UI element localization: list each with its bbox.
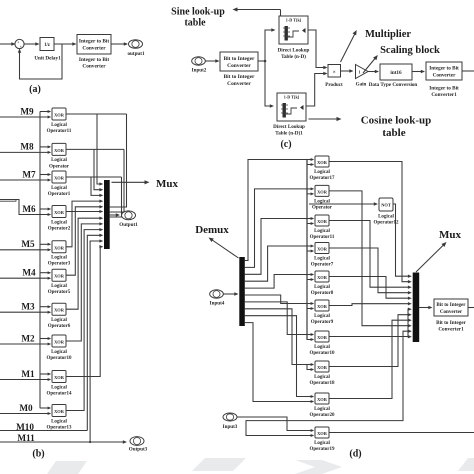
svg-text:Operator: Operator bbox=[49, 164, 70, 169]
svg-text:M11: M11 bbox=[17, 433, 35, 443]
svg-text:Operator9: Operator9 bbox=[311, 320, 334, 325]
svg-text:M2: M2 bbox=[21, 333, 35, 343]
svg-text:Mux: Mux bbox=[156, 178, 179, 190]
svg-text:XOR: XOR bbox=[54, 274, 65, 279]
svg-text:Logical: Logical bbox=[314, 257, 330, 262]
svg-text:Converter: Converter bbox=[440, 309, 463, 315]
svg-text:XOR: XOR bbox=[317, 304, 328, 309]
svg-text:XOR: XOR bbox=[54, 176, 65, 181]
svg-text:XOR: XOR bbox=[54, 113, 65, 118]
svg-text:Sine look-up: Sine look-up bbox=[171, 7, 225, 18]
svg-text:Operator5: Operator5 bbox=[48, 290, 71, 295]
svg-text:XOR: XOR bbox=[54, 340, 65, 345]
svg-text:Logical: Logical bbox=[314, 285, 330, 290]
svg-text:Converter1: Converter1 bbox=[438, 327, 464, 333]
svg-text:XOR: XOR bbox=[54, 308, 65, 313]
svg-text:1/z: 1/z bbox=[44, 43, 51, 48]
svg-text:Bit to Integer: Bit to Integer bbox=[224, 74, 255, 80]
svg-text:Logical: Logical bbox=[51, 385, 67, 390]
svg-text:Table (n-D): Table (n-D) bbox=[281, 53, 306, 60]
svg-text:Logical: Logical bbox=[51, 256, 67, 261]
svg-text:Operator17: Operator17 bbox=[310, 176, 335, 181]
svg-text:Integer to Bit: Integer to Bit bbox=[79, 57, 109, 63]
svg-text:Table (n-D)1: Table (n-D)1 bbox=[275, 130, 303, 137]
svg-text:Cosine look-up: Cosine look-up bbox=[361, 115, 432, 127]
svg-text:Logical: Logical bbox=[314, 407, 330, 412]
svg-text:NOT: NOT bbox=[381, 203, 391, 208]
svg-text:Direct Lookup: Direct Lookup bbox=[278, 47, 310, 53]
svg-text:M0: M0 bbox=[19, 403, 33, 413]
svg-text:Operator3: Operator3 bbox=[48, 262, 71, 267]
svg-text:Converter: Converter bbox=[82, 46, 106, 52]
svg-text:XOR: XOR bbox=[54, 210, 65, 215]
svg-text:1: 1 bbox=[358, 70, 360, 75]
svg-text:Operator8: Operator8 bbox=[311, 291, 334, 296]
svg-text:Operator10: Operator10 bbox=[47, 356, 72, 361]
svg-text:M4: M4 bbox=[22, 268, 36, 278]
svg-text:Integer to Bit: Integer to Bit bbox=[429, 86, 459, 92]
svg-text:XOR: XOR bbox=[54, 148, 65, 153]
svg-text:Direct Lookup: Direct Lookup bbox=[273, 124, 305, 130]
svg-text:XOR: XOR bbox=[317, 275, 328, 280]
svg-text:Logical: Logical bbox=[51, 419, 67, 424]
svg-text:XOR: XOR bbox=[317, 431, 328, 436]
svg-text:Converter: Converter bbox=[227, 63, 251, 69]
svg-text:XOR: XOR bbox=[317, 335, 328, 340]
svg-text:int16: int16 bbox=[390, 70, 402, 76]
svg-text:Logical: Logical bbox=[314, 375, 330, 380]
svg-text:Bit to Integer: Bit to Integer bbox=[436, 320, 466, 326]
svg-text:Integer to Bit: Integer to Bit bbox=[79, 39, 109, 45]
svg-text:Logical: Logical bbox=[51, 123, 67, 128]
svg-text:Operator1: Operator1 bbox=[48, 192, 71, 197]
svg-text:M1: M1 bbox=[21, 369, 35, 379]
svg-text:M8: M8 bbox=[20, 142, 34, 152]
svg-text:(c): (c) bbox=[280, 139, 291, 150]
svg-text:M6: M6 bbox=[22, 204, 36, 214]
svg-text:Demux: Demux bbox=[195, 224, 229, 236]
svg-text:Operator20: Operator20 bbox=[310, 413, 335, 418]
svg-text:XOR: XOR bbox=[317, 160, 328, 165]
svg-text:M5: M5 bbox=[21, 239, 35, 249]
svg-text:Converter: Converter bbox=[227, 81, 251, 87]
svg-text:Operator: Operator bbox=[312, 206, 333, 211]
svg-text:Logical: Logical bbox=[51, 318, 67, 323]
svg-text:Unit Delay1: Unit Delay1 bbox=[34, 56, 61, 62]
svg-text:(a): (a) bbox=[29, 84, 41, 95]
svg-text:Logical: Logical bbox=[314, 345, 330, 350]
svg-text:Bit to Integer: Bit to Integer bbox=[436, 302, 466, 308]
svg-text:Mux: Mux bbox=[439, 229, 462, 241]
svg-text:XOR: XOR bbox=[317, 247, 328, 252]
svg-text:Input3: Input3 bbox=[223, 424, 238, 430]
svg-text:Operator7: Operator7 bbox=[311, 263, 334, 268]
svg-text:1-D T[k]: 1-D T[k] bbox=[286, 18, 302, 23]
svg-text:(b): (b) bbox=[32, 449, 44, 460]
svg-text:table: table bbox=[382, 127, 405, 139]
svg-text:M10: M10 bbox=[16, 422, 34, 432]
svg-text:Logical: Logical bbox=[314, 229, 330, 234]
svg-text:Data Type Conversion: Data Type Conversion bbox=[369, 82, 418, 88]
svg-text:Operator19: Operator19 bbox=[310, 447, 335, 452]
svg-text:Product: Product bbox=[325, 82, 343, 88]
svg-text:Operator2: Operator2 bbox=[48, 226, 71, 231]
svg-text:Converter: Converter bbox=[433, 73, 456, 79]
svg-text:Logical: Logical bbox=[51, 350, 67, 355]
svg-text:table: table bbox=[184, 18, 206, 29]
svg-text:Logical: Logical bbox=[314, 441, 330, 446]
svg-text:Operator18: Operator18 bbox=[310, 381, 335, 386]
svg-text:Logical: Logical bbox=[51, 284, 67, 289]
svg-text:Bit to Integer: Bit to Integer bbox=[224, 56, 255, 62]
svg-text:Logical: Logical bbox=[51, 220, 67, 225]
svg-text:M7: M7 bbox=[22, 169, 36, 179]
svg-text:1-D T[k]: 1-D T[k] bbox=[284, 95, 300, 100]
svg-text:Operator13: Operator13 bbox=[47, 425, 72, 430]
svg-text:Operator10: Operator10 bbox=[310, 351, 335, 356]
svg-text:XOR: XOR bbox=[317, 397, 328, 402]
svg-text:Logical: Logical bbox=[378, 215, 394, 220]
svg-text:Gain: Gain bbox=[356, 82, 367, 88]
svg-text:Logical: Logical bbox=[51, 158, 67, 163]
svg-text:Operator6: Operator6 bbox=[48, 324, 71, 329]
svg-text:XOR: XOR bbox=[317, 189, 328, 194]
svg-text:Output3: Output3 bbox=[129, 447, 148, 453]
svg-text:(d): (d) bbox=[349, 449, 361, 460]
svg-text:Converter: Converter bbox=[82, 64, 106, 70]
svg-text:Multiplier: Multiplier bbox=[365, 29, 411, 40]
svg-text:Input4: Input4 bbox=[210, 301, 225, 307]
svg-text:Operator11: Operator11 bbox=[47, 129, 72, 134]
svg-text:+: + bbox=[20, 45, 22, 49]
svg-text:M9: M9 bbox=[20, 106, 34, 116]
svg-text:Scaling block: Scaling block bbox=[380, 45, 440, 56]
svg-text:output1: output1 bbox=[128, 51, 145, 57]
svg-text:XOR: XOR bbox=[54, 245, 65, 250]
svg-text:Converter1: Converter1 bbox=[431, 92, 457, 98]
svg-text:XOR: XOR bbox=[54, 409, 65, 414]
svg-text:Logical: Logical bbox=[314, 170, 330, 175]
svg-text:×: × bbox=[333, 69, 336, 75]
svg-text:Logical: Logical bbox=[51, 186, 67, 191]
svg-text:Operator11: Operator11 bbox=[310, 235, 335, 240]
svg-text:Output1: Output1 bbox=[119, 222, 138, 228]
svg-text:M3: M3 bbox=[21, 302, 35, 312]
svg-text:XOR: XOR bbox=[317, 365, 328, 370]
svg-text:Integer to Bit: Integer to Bit bbox=[429, 66, 459, 72]
svg-text:Logical: Logical bbox=[314, 314, 330, 319]
svg-text:Input2: Input2 bbox=[192, 68, 207, 74]
svg-text:Operator14: Operator14 bbox=[47, 391, 72, 396]
svg-text:XOR: XOR bbox=[54, 375, 65, 380]
svg-text:XOR: XOR bbox=[317, 219, 328, 224]
